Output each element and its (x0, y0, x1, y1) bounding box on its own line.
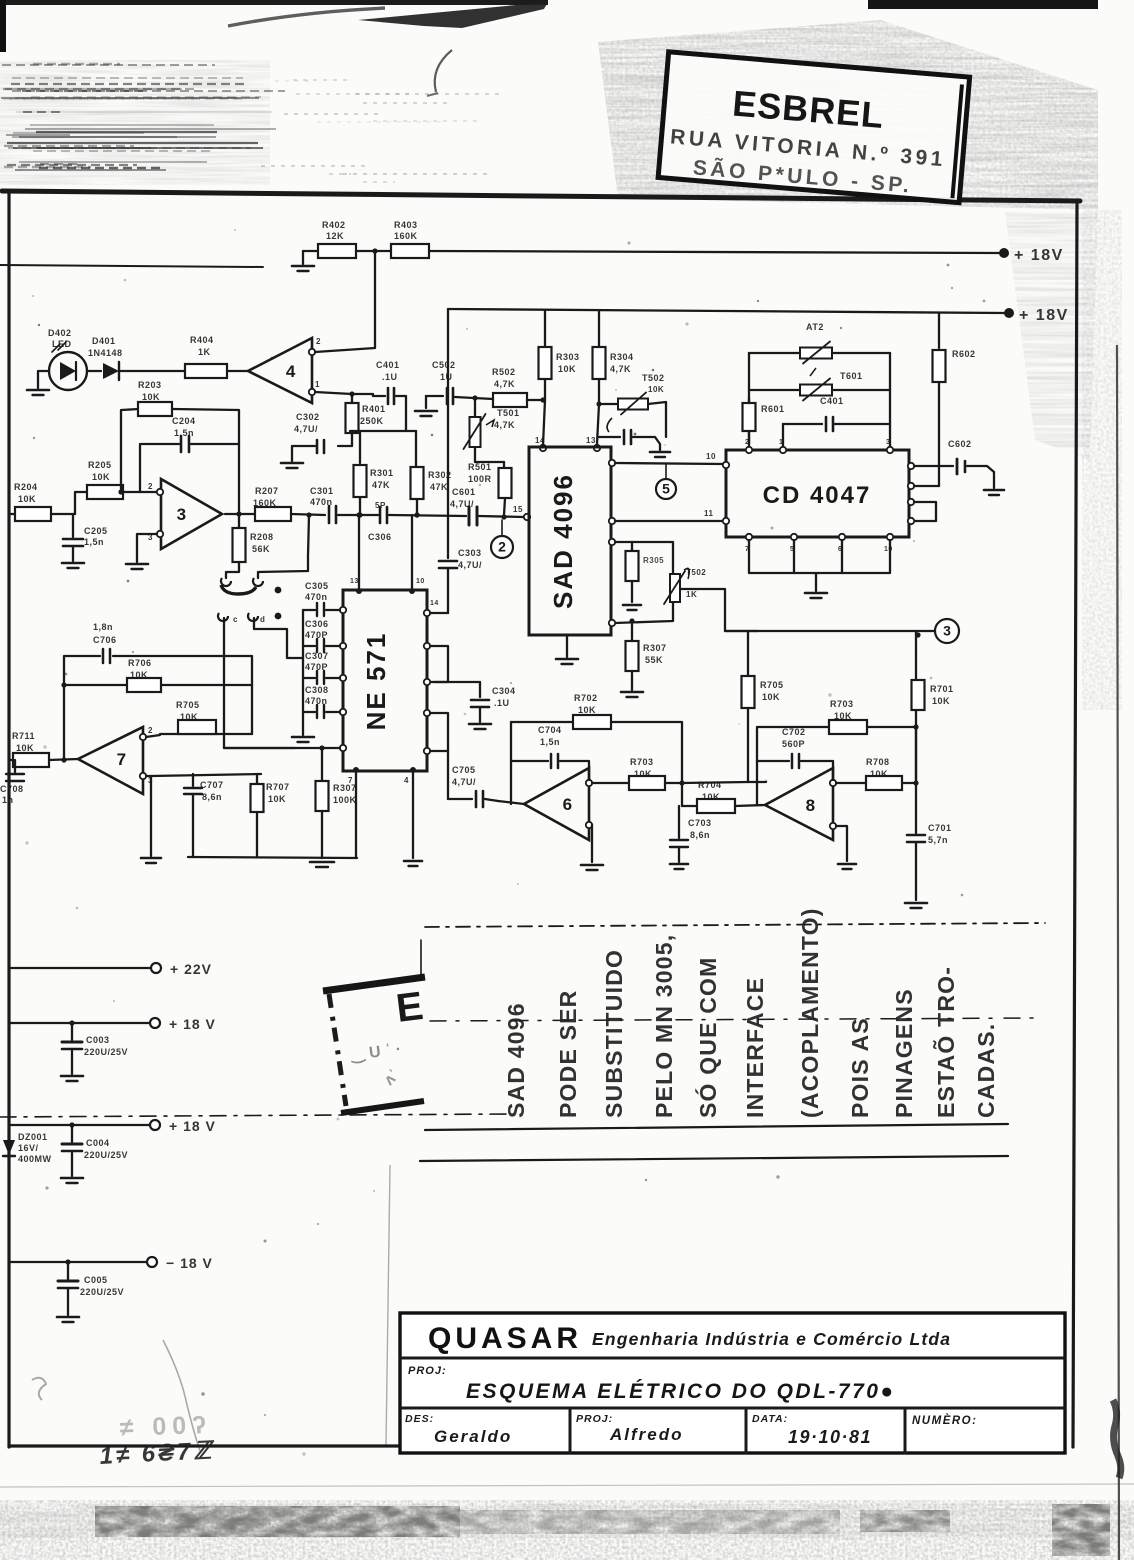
curved hook mark right of streaks (435, 50, 452, 92)
svg-text:R705: R705 (176, 700, 200, 710)
op-amp 4 pin 2 wire to rail junction (309, 349, 315, 355)
resistor R401 250K vertical (351, 394, 353, 404)
capacitor C308 470n row (340, 709, 346, 715)
svg-text:13: 13 (350, 578, 359, 585)
svg-text:10K: 10K (558, 364, 576, 374)
svg-text:CADAS.: CADAS. (973, 1023, 999, 1118)
svg-text:NE 571: NE 571 (361, 632, 391, 731)
svg-text:10K: 10K (180, 712, 198, 722)
wire LED to D401 (87, 370, 101, 372)
capacitor C707 hanging (192, 774, 194, 786)
capacitor C307 470P row (340, 675, 346, 681)
svg-text:R204: R204 (14, 482, 38, 492)
svg-text:C701: C701 (928, 823, 952, 833)
ground for R402 (302, 251, 304, 264)
svg-text:D401: D401 (92, 336, 116, 346)
svg-text:POIS AS: POIS AS (847, 1017, 873, 1118)
svg-text:10: 10 (884, 546, 893, 553)
resistor R402 12K (303, 250, 318, 252)
svg-text:ESTAÕ TRO-: ESTAÕ TRO- (932, 966, 959, 1118)
svg-text:C602: C602 (948, 439, 972, 449)
cap bus left vertical with ground (302, 610, 304, 735)
op-amp 8 pin2 wire through R708 (836, 782, 866, 784)
wire loop bottom to R307 (631, 621, 633, 641)
scan noise top-right region (598, 20, 1098, 210)
notes dash line top (425, 923, 1045, 927)
op-amp U4 (248, 338, 312, 403)
feedback resistor R203 10K (121, 409, 139, 492)
svg-text:47K: 47K (430, 482, 448, 492)
svg-text:C401: C401 (376, 360, 400, 370)
svg-text:DES:: DES: (405, 1413, 434, 1425)
wire R404 to op-amp 4 (227, 370, 250, 372)
svg-text:R301: R301 (370, 468, 394, 478)
svg-text:56K: 56K (252, 544, 270, 554)
capacitor C601 4,7U (468, 507, 471, 525)
+18V terminal a (9, 1022, 149, 1024)
op-amp 6 feedback C704 (510, 722, 512, 804)
wire pad d to cap bus (254, 618, 303, 658)
capacitor C005 220U/25V (67, 1262, 69, 1279)
paper speckle dots (510, 682, 512, 684)
svg-text:+ 18 V: + 18 V (169, 1016, 216, 1032)
bottom ground bus (188, 857, 357, 858)
op-amp 7 pin2 wire (146, 734, 252, 737)
svg-text:470n: 470n (310, 497, 333, 507)
wire op4 pin1 to R401 C401 (352, 394, 373, 396)
resistor R707 10K vertical (256, 774, 258, 783)
svg-text:12K: 12K (326, 231, 344, 241)
svg-text:5,7n: 5,7n (928, 835, 948, 845)
svg-text:R207: R207 (255, 486, 279, 496)
+18V terminal b (9, 1124, 149, 1126)
svg-text:PELO MN 3005,: PELO MN 3005, (651, 934, 677, 1118)
svg-text:4,7U/: 4,7U/ (294, 424, 318, 434)
zener DZ001 (8, 1125, 10, 1138)
svg-text:4,7U/: 4,7U/ (458, 560, 482, 570)
svg-text:10K: 10K (932, 696, 950, 706)
svg-text:D402: D402 (48, 328, 72, 338)
svg-text:4,7K: 4,7K (494, 379, 515, 389)
wire R205 to op-amp 3 pin 2 (123, 491, 157, 493)
wire D401 to R404 (140, 370, 184, 372)
svg-text:10K: 10K (648, 385, 664, 394)
svg-text:14: 14 (430, 600, 439, 607)
svg-text:220U/25V: 220U/25V (84, 1150, 128, 1160)
resistor R602 vertical (933, 350, 946, 382)
svg-text:R702: R702 (574, 693, 598, 703)
schematic frame border (2, 191, 1080, 201)
svg-text:5: 5 (662, 481, 670, 497)
black top edge bars (0, 0, 548, 5)
svg-text:4,7K: 4,7K (610, 364, 631, 374)
svg-text:C707: C707 (200, 780, 224, 790)
svg-text:8,6n: 8,6n (690, 830, 710, 840)
bottom wire of R401/C401 loop (350, 430, 416, 432)
capacitor C701 below with ground (915, 783, 917, 833)
op-amp U3 (161, 479, 222, 549)
CD4047 right pins and stubs (908, 463, 914, 469)
notes bottom line 2 (420, 1156, 1008, 1161)
svg-text:4,7K: 4,7K (494, 420, 515, 430)
resistor R502 4,7K (493, 393, 527, 407)
svg-text:LED: LED (52, 339, 72, 349)
notes vertical tick left (420, 940, 422, 975)
op-amp 7 output wire and R711 (9, 759, 13, 761)
resistor R304 4,7K vertical from rail (598, 311, 600, 348)
svg-text:47K: 47K (372, 480, 390, 490)
op-amp 8 pin3 ground (836, 826, 847, 861)
+18V terminal top (999, 248, 1009, 258)
svg-text:R501: R501 (468, 462, 492, 472)
svg-text:10: 10 (416, 578, 425, 585)
svg-text:E: E (394, 984, 426, 1031)
SAD pin loop right lower (609, 539, 615, 545)
ground tap before C502 (425, 396, 427, 408)
svg-text:4,7U/: 4,7U/ (452, 777, 476, 787)
svg-text:QUASAR: QUASAR (428, 1322, 582, 1355)
IC U-CD4047 box (726, 450, 909, 537)
svg-text:1,5n: 1,5n (174, 428, 194, 438)
svg-text:T502: T502 (642, 373, 665, 383)
op-amp 3 output wire (225, 513, 256, 515)
svg-text:1,5n: 1,5n (540, 737, 560, 747)
svg-text:14: 14 (535, 436, 545, 445)
svg-text:2: 2 (498, 539, 506, 555)
svg-text:7: 7 (117, 750, 126, 769)
svg-text:R404: R404 (190, 335, 214, 345)
svg-text:AT2: AT2 (806, 322, 824, 332)
wire R304 down to SAD pin 13 (597, 404, 599, 444)
svg-text:R307: R307 (333, 783, 357, 793)
svg-text:10K: 10K (578, 705, 596, 715)
svg-text:10K: 10K (130, 670, 148, 680)
CD4047 bottom bus to ground (749, 540, 890, 573)
op-amp 6 output to R704 (498, 801, 524, 804)
NE571 lower left pin wire (340, 745, 346, 751)
top-left diagonal wedge (358, 2, 548, 28)
capacitor C602 (956, 459, 959, 474)
capacitor C305 470n row (340, 607, 346, 613)
svg-text:1N4148: 1N4148 (88, 348, 123, 358)
op-amp U8 (765, 768, 833, 840)
trimmer T601 (749, 389, 800, 391)
resistor R307 55K (626, 641, 639, 671)
feedback capacitor C204 1,5n (140, 444, 179, 492)
svg-text:SÓ QUE COM: SÓ QUE COM (694, 956, 721, 1118)
svg-text:R602: R602 (952, 349, 976, 359)
svg-text:10K: 10K (634, 769, 652, 779)
svg-text:.1U: .1U (494, 698, 510, 708)
svg-text:4,7U/: 4,7U/ (450, 499, 474, 509)
svg-text:R304: R304 (610, 352, 634, 362)
capacitor C304 .1U with ground (471, 699, 489, 702)
svg-text:560P: 560P (782, 739, 805, 749)
-18V terminal (9, 1261, 146, 1263)
svg-text:R203: R203 (138, 380, 162, 390)
resistor R307b 100K vertical (321, 748, 323, 780)
svg-text:R401: R401 (362, 404, 386, 414)
NE571 right pin to C303 (424, 610, 430, 616)
svg-text:470n: 470n (305, 696, 328, 706)
svg-text:5P: 5P (375, 501, 386, 510)
resistor R701 10K vertical (747, 631, 749, 676)
NE571 right pin to C304 (434, 682, 480, 697)
SAD right pin wire 10 to CD4047 (609, 460, 615, 466)
svg-text:2: 2 (148, 482, 153, 491)
svg-text:4: 4 (286, 362, 296, 381)
svg-text:C705: C705 (452, 765, 476, 775)
op-amp 4 pin 1 wire (309, 389, 315, 395)
resistor R303 10K vertical from rail (544, 311, 546, 348)
svg-text:220U/25V: 220U/25V (84, 1047, 128, 1057)
IC U-NE571 box (343, 590, 427, 771)
svg-text:C703: C703 (688, 818, 712, 828)
svg-text:8,6n: 8,6n (202, 792, 222, 802)
op-amp 7 feedback loop C706 (64, 656, 100, 760)
svg-text:100R: 100R (468, 474, 492, 484)
trimmer T502 10K (599, 403, 618, 405)
capacitor C302 4,7U with ground (338, 431, 352, 446)
svg-text:1: 1 (315, 380, 320, 389)
svg-text:470n: 470n (305, 592, 328, 602)
capacitor C703 8,6n to ground (678, 806, 680, 838)
faded stamp lower (323, 977, 425, 991)
notes bottom line 1 (425, 1124, 1008, 1130)
svg-text:R307: R307 (643, 643, 667, 653)
svg-text:+ 18 V: + 18 V (169, 1118, 216, 1134)
op-amp 7 pin3 wire (146, 776, 151, 856)
bottom noise band (0, 1484, 1134, 1487)
svg-text:3: 3 (943, 623, 951, 639)
op-amp 6 feedback resistor R702 10K (511, 721, 573, 723)
resistor R501 100R vertical (503, 462, 505, 468)
svg-text:6: 6 (563, 795, 572, 814)
left loop vertical AT2 (748, 353, 750, 444)
svg-text:INTERFACE: INTERFACE (742, 977, 768, 1118)
svg-text:C306: C306 (305, 619, 329, 629)
svg-text:10K: 10K (762, 692, 780, 702)
svg-text:(ACOPLAMENTO): (ACOPLAMENTO) (797, 907, 823, 1118)
svg-text:T601: T601 (840, 371, 863, 381)
svg-text:1,8n: 1,8n (93, 622, 113, 632)
NE571 bottom pin 4 ground (410, 767, 416, 773)
svg-text:CD 4047: CD 4047 (763, 482, 872, 509)
svg-text:PODE SER: PODE SER (555, 990, 581, 1118)
op-amp 8 feedback R703b (757, 727, 828, 805)
resistor R208 56K below output (238, 514, 240, 527)
svg-text:+ 18V: + 18V (1014, 247, 1064, 264)
scan noise right column below frame (1005, 212, 1098, 460)
svg-text:R707: R707 (266, 782, 290, 792)
svg-text:.1U: .1U (382, 372, 398, 382)
right edge smudge near title block (1113, 1400, 1121, 1478)
wire C301 to C306 (338, 514, 378, 516)
svg-text:C704: C704 (538, 725, 562, 735)
svg-text:C306: C306 (368, 532, 392, 542)
svg-text:3: 3 (886, 439, 890, 446)
dash-dot line mid (430, 1018, 1040, 1021)
capacitor C003 220U/25V (71, 1023, 73, 1040)
vertical x916 from node3 wire (915, 631, 917, 655)
svg-text:4: 4 (404, 776, 409, 785)
svg-text:c: c (233, 615, 238, 624)
svg-text:R402: R402 (322, 220, 346, 230)
CD4047 bottom pins (746, 534, 752, 540)
svg-text:Alfredo: Alfredo (609, 1425, 684, 1444)
svg-text:Geraldo: Geraldo (434, 1427, 512, 1446)
svg-text:470P: 470P (305, 630, 328, 640)
paper crease wavy lower-left (163, 1340, 200, 1451)
capacitor C004 220U/25V (71, 1125, 73, 1142)
title block outer box (400, 1313, 1065, 1453)
vertical from rail to C303 and NE571 (447, 309, 449, 558)
svg-text:C004: C004 (86, 1138, 110, 1148)
diode D401 1N4148 (103, 363, 119, 379)
trimmer T501 4,7K (474, 398, 476, 416)
node 2 circle (491, 536, 513, 558)
vertical from rail to R602 (938, 313, 940, 348)
svg-text:d: d (260, 615, 265, 624)
svg-text:R704: R704 (698, 780, 722, 790)
svg-text:C702: C702 (782, 727, 806, 737)
svg-text:DATA:: DATA: (752, 1413, 788, 1425)
wire op6 pin2 through R703 (592, 782, 629, 784)
svg-text:PROJ:: PROJ: (576, 1413, 613, 1425)
capacitor C301 470n (328, 506, 331, 523)
dash-dot line through stamp (0, 1114, 510, 1117)
svg-text:C005: C005 (84, 1275, 108, 1285)
svg-text:R208: R208 (250, 532, 274, 542)
capacitor C705 4,7U to op-amp 6 (448, 798, 472, 800)
svg-text:R303: R303 (556, 352, 580, 362)
svg-text:R701: R701 (930, 684, 954, 694)
svg-text:100K: 100K (333, 795, 357, 805)
svg-text:Engenharia Indústria e Comérci: Engenharia Indústria e Comércio Ltda (592, 1329, 951, 1349)
svg-text:13: 13 (586, 436, 596, 445)
svg-text:3: 3 (177, 505, 186, 524)
svg-text:10K: 10K (702, 792, 720, 802)
op-amp U7 (78, 727, 143, 794)
+22V terminal (9, 967, 150, 969)
svg-text:160K: 160K (394, 231, 418, 241)
jumper pads a b (221, 578, 231, 586)
ground at LED (38, 371, 49, 388)
svg-text:NUMÈRO:: NUMÈRO: (912, 1414, 977, 1427)
svg-text:1: 1 (779, 439, 783, 446)
wire C306 to C601 (389, 515, 466, 516)
faint squiggle mark lower-left (32, 1378, 46, 1400)
svg-text:PINAGENS: PINAGENS (891, 988, 917, 1118)
resistor R305 inside loop with ground (631, 542, 633, 551)
svg-text:R706: R706 (128, 658, 152, 668)
wire C601 to SAD pin 15 (479, 516, 524, 517)
wire pad c down to NE571 pin (224, 618, 295, 748)
wire R204 junction (51, 513, 75, 515)
ESBREL stamp top (658, 52, 969, 203)
wire R402-R403 with junction to op-amp 4 (356, 250, 392, 252)
svg-text:19·10·81: 19·10·81 (788, 1427, 872, 1447)
NE571 right pins join down (424, 710, 430, 716)
svg-text:R205: R205 (88, 460, 112, 470)
op-amp 6 pin3 ground (591, 825, 593, 862)
svg-text:R502: R502 (492, 367, 516, 377)
resistor R403 160K (391, 244, 429, 258)
svg-text:1K: 1K (198, 347, 211, 357)
svg-text:1n: 1n (2, 795, 14, 805)
svg-text:55K: 55K (645, 655, 663, 665)
svg-text:220U/25V: 220U/25V (80, 1287, 124, 1297)
wire up to R205 (75, 492, 87, 514)
capacitor C303 4,7U on vertical (439, 560, 457, 563)
op-amp 7 feedback resistor R706 10K (64, 684, 127, 686)
NE571 right pins bracket (424, 643, 430, 649)
svg-text:+ 18V: + 18V (1019, 307, 1069, 324)
resistor R204 10K (15, 507, 51, 521)
svg-text:DZ001: DZ001 (18, 1132, 48, 1142)
svg-text:C601: C601 (452, 487, 476, 497)
svg-text:10K: 10K (834, 711, 852, 721)
trimmer T502b 1K vertical (670, 574, 680, 602)
capacitor C708 1n below wire (14, 760, 16, 772)
svg-text:R711: R711 (12, 731, 35, 741)
svg-text:10K: 10K (142, 392, 160, 402)
svg-text:1K: 1K (686, 590, 697, 599)
svg-text:2: 2 (745, 439, 749, 446)
svg-text:ESQUEMA ELÉTRICO DO QDL-770●: ESQUEMA ELÉTRICO DO QDL-770● (466, 1380, 896, 1403)
svg-text:15: 15 (513, 505, 523, 514)
resistor R601 vertical (748, 398, 750, 403)
resistor R207 160K (255, 507, 291, 521)
vertical to node3 wire (915, 655, 917, 680)
paper crease line (386, 1165, 390, 1445)
jumper pads c d (218, 613, 228, 621)
svg-text:R703: R703 (630, 757, 654, 767)
capacitor C401 .1U parallel (373, 395, 385, 397)
resistor R704 10K to op-amp 8 (682, 805, 697, 807)
svg-text:C003: C003 (86, 1035, 110, 1045)
resistor R205 10K (87, 485, 123, 499)
svg-text:C708: C708 (0, 784, 24, 794)
svg-text:T501: T501 (497, 408, 520, 418)
node 5 circle (656, 479, 676, 499)
svg-text:SAD 4096: SAD 4096 (503, 1002, 529, 1118)
capacitor C205 1,5n (72, 514, 74, 537)
svg-text:R705: R705 (760, 680, 784, 690)
svg-text:10K: 10K (92, 472, 110, 482)
wire from R207 node down to pad b (258, 515, 309, 578)
svg-text:+ 22V: + 22V (170, 961, 212, 977)
svg-text:10K: 10K (16, 743, 34, 753)
svg-text:SUBSTITUIDO: SUBSTITUIDO (601, 949, 627, 1118)
scan noise top-left streaks (0, 60, 270, 185)
svg-text:PROJ:: PROJ: (408, 1365, 447, 1377)
capacitor C306b 470P row (340, 643, 346, 649)
input wire left (9, 513, 16, 515)
NE571 top pins with verticals to signal line (356, 588, 362, 594)
wire R207 to C301 (291, 514, 325, 515)
wire trimmer to node 3 line (680, 589, 758, 631)
svg-text:C305: C305 (305, 581, 329, 591)
svg-text:8: 8 (806, 796, 815, 815)
capacitor C502 1U (426, 395, 443, 397)
svg-text:C706: C706 (93, 635, 117, 645)
SAD right pin wire 11 to CD4047 (609, 518, 615, 524)
svg-text:C307: C307 (305, 651, 329, 661)
svg-text:2: 2 (316, 337, 321, 346)
svg-text:C301: C301 (310, 486, 334, 496)
CD4047 top pins (746, 447, 752, 453)
